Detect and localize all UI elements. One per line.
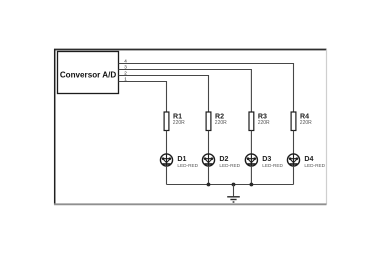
wire pin 1 to R1 column [119, 82, 167, 113]
resistor R2 [206, 112, 227, 131]
LED D2 [202, 154, 240, 168]
svg-text:D2: D2 [219, 155, 228, 163]
svg-text:LED-RED: LED-RED [304, 163, 325, 168]
LED D1 [160, 154, 198, 168]
svg-text:220R: 220R [258, 120, 270, 126]
LED D3 [245, 154, 283, 168]
svg-text:3: 3 [124, 65, 127, 70]
wire R2 to D2 [208, 131, 210, 155]
svg-text:2: 2 [124, 71, 127, 76]
junction at D2 column [207, 183, 211, 187]
wire D4 to ground bus [293, 166, 295, 185]
A/D converter U1 box [58, 52, 119, 94]
border frame (decorative) [54, 49, 327, 205]
svg-text:1: 1 [124, 77, 127, 82]
svg-text:D1: D1 [177, 155, 186, 163]
wire R1 to D1 [166, 131, 168, 155]
svg-text:4: 4 [124, 59, 127, 64]
resistor R3 [249, 112, 270, 131]
svg-text:LED-RED: LED-RED [262, 163, 283, 168]
svg-text:D3: D3 [262, 155, 271, 163]
resistor R1 [164, 112, 185, 131]
wire D1 to ground bus [166, 166, 168, 185]
ground [227, 185, 240, 203]
junction at ground tap [232, 183, 236, 187]
LED D4 [287, 154, 325, 168]
svg-text:Conversor A/D: Conversor A/D [60, 71, 117, 80]
svg-text:LED-RED: LED-RED [219, 163, 240, 168]
wire R3 to D3 [250, 131, 252, 155]
wire ground bus [167, 184, 294, 186]
wire pin 2 to R2 column [119, 76, 209, 113]
resistor R4 [291, 112, 312, 131]
wire pin 3 to R3 column [119, 70, 252, 113]
wire pin 4 to R4 column [119, 64, 294, 113]
wire D3 to ground bus [250, 166, 252, 185]
svg-text:220R: 220R [300, 120, 312, 126]
svg-text:LED-RED: LED-RED [177, 163, 198, 168]
junction at D3 column [250, 183, 254, 187]
wire D2 to ground bus [208, 166, 210, 185]
svg-text:220R: 220R [215, 120, 227, 126]
wire R4 to D4 [293, 131, 295, 155]
svg-text:D4: D4 [304, 155, 313, 163]
svg-text:220R: 220R [173, 120, 185, 126]
